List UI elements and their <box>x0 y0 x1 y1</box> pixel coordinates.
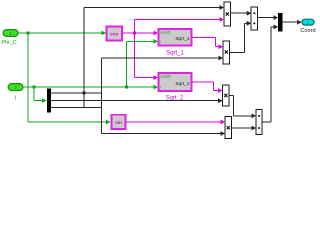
wire demux1 down segment <box>83 93 85 108</box>
wire demux3 down to product P4 in2 <box>102 131 226 136</box>
node junction Phi_C branch <box>27 32 30 35</box>
product P2 <box>223 41 229 64</box>
product P3 <box>223 85 229 106</box>
trig block sin <box>112 115 126 129</box>
wire Phi_C down to sin <box>28 33 111 124</box>
wire demux out3 <box>51 107 102 109</box>
svg-text:2: 2 <box>14 85 17 90</box>
subsystem Sqrt_2 <box>159 73 192 102</box>
wire cos down to Sqrt_2 in1 <box>135 33 159 80</box>
wire P2 out to sum S1 in2 <box>230 21 252 53</box>
svg-text:Sqrt_2: Sqrt_2 <box>175 81 189 87</box>
input port 2 I <box>8 84 23 102</box>
wire P1 out to sum S1 in1 <box>231 11 252 16</box>
wire demux1 up to product P2 in2 <box>102 56 224 134</box>
wire P4 out to sum S2 in2 <box>231 126 256 131</box>
product P4 <box>225 117 231 139</box>
svg-text:cos: cos <box>110 31 118 36</box>
wire demux1 up to product P1 in1 <box>84 5 224 93</box>
wire mux out to Coord <box>283 20 302 25</box>
svg-text:sin: sin <box>115 120 122 125</box>
mux <box>278 13 282 32</box>
node junction I to demux <box>33 86 36 89</box>
wire I up to Sqrt_1 in2 <box>127 39 159 87</box>
wire demux out2 to product P3 in2 <box>51 98 223 103</box>
wire I down into demux <box>34 87 47 103</box>
node junction demux1 <box>83 92 86 95</box>
wire sin out to product P4 in1 <box>126 120 225 125</box>
svg-text:1: 1 <box>9 31 12 36</box>
output port 1 Coord <box>300 19 315 34</box>
wire cos up to product P1 <box>135 17 225 33</box>
wire S2 out up to mux in2 <box>262 25 278 123</box>
wire S1 out to mux in1 <box>258 15 279 20</box>
demux <box>47 89 51 113</box>
sum S2 <box>256 110 262 135</box>
svg-text:cos(fi): cos(fi) <box>160 74 171 79</box>
node junction I to Sqrt_1 <box>125 86 128 89</box>
node junction cos branch <box>133 32 136 35</box>
svg-text:Phi_C: Phi_C <box>1 40 16 46</box>
subsystem Sqrt_1 <box>159 29 192 57</box>
input port 1 Phi_C <box>1 30 18 46</box>
svg-text:cos(fi): cos(fi) <box>160 29 171 34</box>
wire Sqrt_1 out to product P2 in1 <box>192 37 223 49</box>
wire demux out1 <box>51 92 102 94</box>
product P1 <box>224 2 230 26</box>
wire I to Sqrt_2 in2 <box>23 85 158 90</box>
sum S1 <box>251 7 257 30</box>
wire cos out to Sqrt_1 in1 <box>123 31 159 36</box>
trig block cos <box>107 27 123 41</box>
svg-text:Sqrt_1: Sqrt_1 <box>166 51 184 57</box>
svg-text:Coord: Coord <box>300 28 315 34</box>
wire Sqrt_2 out to product P3 in1 <box>192 82 223 93</box>
svg-text:I: I <box>160 39 161 44</box>
svg-text:I: I <box>160 84 161 89</box>
svg-text:Sqrt_1: Sqrt_1 <box>175 36 189 42</box>
wire Phi_C to cos <box>18 31 106 36</box>
wire P3 out to sum S2 in1 <box>229 96 256 119</box>
